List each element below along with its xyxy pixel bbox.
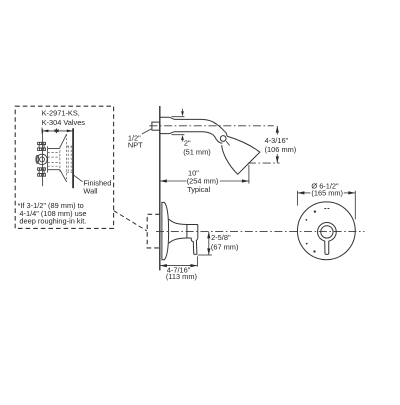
- valve hidden internal lines: [48, 153, 60, 167]
- plaster guard front hidden edge: [66, 134, 68, 182]
- diagonal leader from detail box: [114, 211, 147, 231]
- svg-text:(67 mm): (67 mm): [211, 242, 239, 251]
- svg-text:Typical: Typical: [187, 185, 210, 194]
- svg-text:4-3/16": 4-3/16": [265, 136, 289, 145]
- guard flange hidden box: [67, 146, 73, 172]
- dimension 2-5/8: [207, 232, 210, 255]
- 4-7/16 extension line: [196, 256, 198, 266]
- leader 1/2 NPT: [142, 129, 152, 134]
- head face centerline: [248, 162, 280, 164]
- svg-text:K-2971-KS,: K-2971-KS,: [42, 108, 80, 117]
- finished wall line (inside detail box): [72, 128, 74, 188]
- svg-text:NPT: NPT: [128, 141, 143, 150]
- svg-text:deep roughing-in kit.: deep roughing-in kit.: [19, 217, 86, 226]
- dimension 10 inch: [160, 179, 249, 182]
- trim bell cone: [169, 219, 187, 243]
- svg-text:2-5/8": 2-5/8": [211, 233, 231, 242]
- lever stem front view: [325, 239, 330, 254]
- head neck seam: [226, 141, 230, 145]
- ball joint: [220, 136, 226, 142]
- 10 inch extension line: [248, 165, 250, 184]
- svg-text:(113 mm): (113 mm): [166, 272, 197, 281]
- shower head: [222, 136, 260, 174]
- valve bottom outlet fitting: [38, 168, 46, 176]
- dimension star (valve depth): [42, 128, 73, 134]
- shower arm top profile: [160, 117, 224, 131]
- 2 inch extension ticks: [171, 117, 184, 135]
- dimension dia 6-1/2: [298, 191, 356, 194]
- trim hub: [187, 225, 198, 239]
- svg-text:(165 mm): (165 mm): [311, 188, 343, 197]
- svg-text:Wall: Wall: [83, 187, 97, 196]
- escutcheon plate side view: [162, 202, 169, 259]
- 2 inch bottom arrow: [181, 135, 184, 142]
- dimension 4-3/16 line: [276, 126, 279, 163]
- ball collar: [216, 139, 222, 143]
- valve stem cap circles: [36, 154, 47, 164]
- handle ring front view: [318, 223, 337, 242]
- main wall line: [159, 106, 161, 270]
- svg-text:(106 mm): (106 mm): [265, 145, 297, 154]
- detail note dashed box: [15, 106, 113, 228]
- valve axis line: [42, 129, 44, 186]
- leader to Finished Wall: [74, 175, 83, 182]
- shower arm centerline: [149, 125, 273, 127]
- lever handle side view: [191, 238, 198, 254]
- escutcheon plate front view: [297, 202, 355, 260]
- rough-in valve hidden box: [147, 214, 160, 248]
- svg-text:K-304 Valves: K-304 Valves: [42, 118, 86, 127]
- trim centerline: [156, 231, 365, 233]
- handle ring inner circle: [321, 226, 333, 238]
- plaster guard flare: [60, 134, 67, 182]
- valve body front hidden edge: [59, 146, 61, 173]
- shower arm end cap: [224, 131, 227, 136]
- dimension 4-7/16: [160, 264, 197, 267]
- 2 inch top arrow: [181, 109, 184, 117]
- valve top inlet fitting: [38, 142, 46, 150]
- 1/2 NPT fitting: [152, 122, 160, 130]
- 2-5/8 extension line: [198, 254, 212, 256]
- svg-text:2": 2": [184, 138, 191, 147]
- shower arm bottom profile: [160, 132, 216, 140]
- plate screw dots: [306, 210, 317, 252]
- plate top dash marks: [324, 208, 329, 210]
- svg-text:(51 mm): (51 mm): [183, 147, 211, 156]
- diameter extension lines: [297, 191, 355, 220]
- valve body frame: [48, 146, 60, 172]
